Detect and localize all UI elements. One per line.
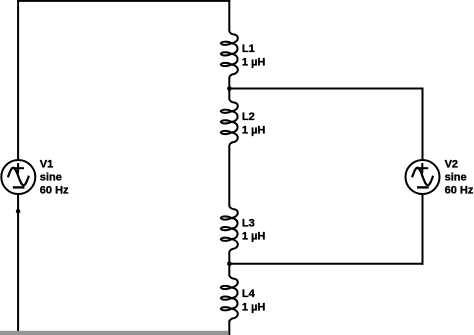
wire middle bottom stub <box>228 320 230 335</box>
svg-text:L2: L2 <box>242 111 255 123</box>
svg-text:V2: V2 <box>445 159 458 171</box>
svg-text:60 Hz: 60 Hz <box>40 185 69 197</box>
svg-text:1 µH: 1 µH <box>242 124 266 136</box>
wire between L3 and L4 <box>228 252 230 276</box>
svg-text:L1: L1 <box>242 43 255 55</box>
wire right upper segment <box>422 88 424 161</box>
svg-text:1 µH: 1 µH <box>242 231 266 243</box>
wire right lower segment <box>422 194 424 265</box>
node junction L1-L2 <box>227 86 232 91</box>
node junction L3-L4 <box>227 262 232 267</box>
wire between L2 and L3 <box>228 145 230 206</box>
node on left wire <box>16 209 21 214</box>
inductor L3 <box>221 206 238 253</box>
svg-text:60 Hz: 60 Hz <box>445 185 474 197</box>
svg-text:V1: V1 <box>40 159 53 171</box>
svg-text:sine: sine <box>40 172 62 184</box>
svg-text:1 µH: 1 µH <box>242 56 266 68</box>
wire left upper segment <box>17 0 19 160</box>
wire between L1 and L2 <box>228 77 230 99</box>
svg-text:sine: sine <box>445 172 467 184</box>
voltage source V1 <box>1 160 35 194</box>
svg-text:1 µH: 1 µH <box>242 301 266 313</box>
voltage source V2 <box>406 160 440 194</box>
scrollbar thumb <box>0 331 229 335</box>
wire left lower segment <box>17 194 19 332</box>
inductor L1 <box>221 31 238 78</box>
wire top rail <box>17 0 230 2</box>
svg-text:L3: L3 <box>242 217 255 229</box>
inductor L2 <box>221 99 238 146</box>
wire V2 bottom to junction2 <box>229 263 423 265</box>
svg-text:L4: L4 <box>242 288 256 300</box>
wire middle top lead <box>228 0 230 31</box>
wire junction1 to V2 top <box>229 88 423 90</box>
inductor L4 <box>221 275 238 322</box>
